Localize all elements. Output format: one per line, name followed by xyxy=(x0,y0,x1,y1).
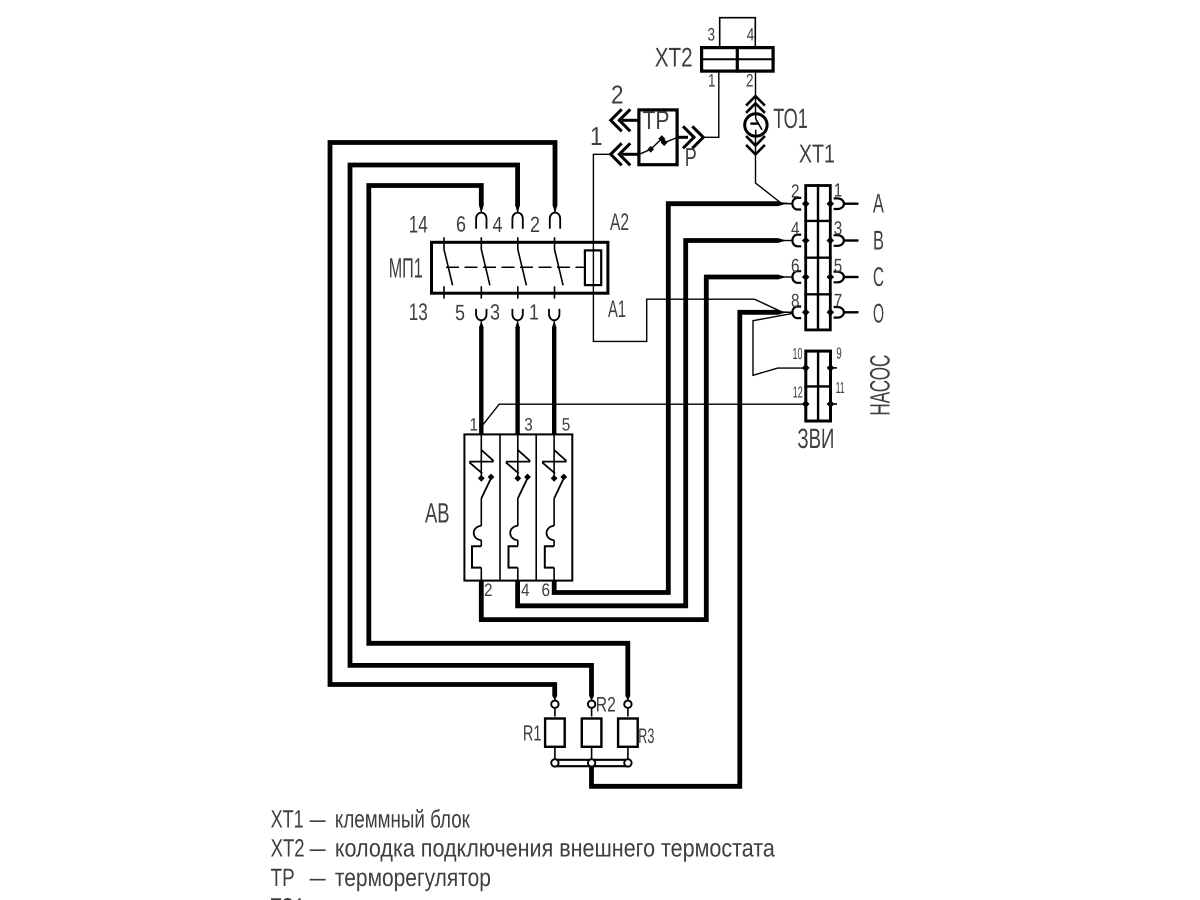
resistor R2 body xyxy=(582,719,602,747)
wire taper at XT1 pin2 xyxy=(778,201,787,206)
thermoregulator TP body xyxy=(639,110,677,165)
svg-text:–: – xyxy=(310,835,326,863)
svg-text:1: 1 xyxy=(470,415,479,435)
wire ЗВИ pin9 stub xyxy=(831,367,837,369)
МП1 linkage dashed line xyxy=(446,266,584,268)
svg-text:3: 3 xyxy=(490,300,500,325)
svg-text:А1: А1 xyxy=(608,296,626,323)
svg-text:8: 8 xyxy=(791,291,800,312)
svg-text:2: 2 xyxy=(530,212,540,237)
wire TP pin1 to МП1 coil A2 and A1 to XT1 pin8 xyxy=(593,154,791,341)
wire taper at R1 top circle xyxy=(552,696,557,702)
МП1 pin6 socket top xyxy=(476,213,486,229)
wire МП1 pin3 to АВ pin3 xyxy=(515,327,519,434)
МП1 pin4 socket top xyxy=(512,213,522,229)
svg-text:ТО1: ТО1 xyxy=(271,893,305,900)
МП1 pin1 socket bottom xyxy=(549,309,559,320)
XT1 pin labels xyxy=(791,181,842,313)
svg-text:В: В xyxy=(873,225,884,255)
wire taper at МП1 pin3 socket xyxy=(515,321,520,329)
ЗВИ pin9 dot xyxy=(827,364,835,372)
svg-text:6: 6 xyxy=(791,256,800,277)
connector XT2 body xyxy=(700,46,775,73)
svg-text:R2: R2 xyxy=(596,694,616,717)
wire МП1 pin4 socket joint xyxy=(517,205,519,212)
TO1 socket arrows bottom xyxy=(746,136,765,154)
XT1 pin3 plug xyxy=(827,235,844,246)
svg-text:14: 14 xyxy=(409,211,428,238)
svg-text:2: 2 xyxy=(484,580,493,600)
svg-text:1: 1 xyxy=(834,181,843,202)
terminal block XT1 body xyxy=(804,184,831,330)
wire taper at МП1 pin6 socket xyxy=(479,205,484,214)
svg-text:2: 2 xyxy=(791,181,800,202)
wire XT1 pin8 to ЗВИ pin10 xyxy=(753,314,805,376)
svg-text:ТР: ТР xyxy=(271,864,295,892)
XT2 pin labels xyxy=(708,24,755,90)
svg-text:ТР: ТР xyxy=(643,105,670,135)
wire taper at R3 top circle xyxy=(625,696,630,702)
wire XT1 pin6 thin joint xyxy=(780,276,792,278)
svg-text:–: – xyxy=(310,805,326,833)
svg-text:3: 3 xyxy=(834,218,843,239)
wire net B: АВ pin4 to XT1 pin4 xyxy=(518,241,779,606)
R2 bottom terminal circle xyxy=(588,759,595,766)
wire XT1 pin4 thin joint xyxy=(780,240,792,242)
wire ЗВИ pin11 stub xyxy=(831,403,837,405)
legend line XT2 xyxy=(271,835,775,863)
wire R2 bottom lead xyxy=(591,748,593,760)
wire XT1 pin5 stub to C xyxy=(844,276,859,278)
wire XT1 pin3 stub to B xyxy=(844,239,859,241)
resistor R1 body xyxy=(545,719,565,747)
svg-text:ХТ2: ХТ2 xyxy=(271,835,305,863)
МП1 main contact pole 4-3 xyxy=(518,237,527,298)
svg-text:терморегулятор: терморегулятор xyxy=(335,864,491,892)
svg-text:9: 9 xyxy=(836,345,842,362)
svg-text:11: 11 xyxy=(836,380,845,397)
svg-text:5: 5 xyxy=(455,300,465,325)
wire XT1 pin2 thin joint xyxy=(780,203,792,205)
R3 bottom terminal circle xyxy=(624,759,631,766)
svg-text:А2: А2 xyxy=(610,209,629,236)
svg-text:5: 5 xyxy=(562,415,571,435)
wire XT1 pin7 stub to O xyxy=(844,311,859,313)
XT1 pin4 socket xyxy=(792,235,809,247)
wire МП1 pin1 socket joint xyxy=(553,320,555,326)
wire taper at МП1 pin4 socket xyxy=(515,205,520,214)
МП1 coil xyxy=(585,250,601,285)
wire XT1 pin1 stub to A xyxy=(844,202,859,204)
ЗВИ pin11 dot xyxy=(827,400,835,408)
svg-text:R1: R1 xyxy=(523,721,542,746)
wire taper at МП1 pin2 socket xyxy=(553,205,558,214)
wire МП1 pin5 socket joint xyxy=(480,320,482,326)
svg-text:2: 2 xyxy=(746,71,754,91)
svg-text:6: 6 xyxy=(542,580,551,600)
wire taper at R2 top circle xyxy=(589,696,594,702)
wire АВ pin1 to ЗВИ pin12 xyxy=(481,404,804,427)
svg-text:3: 3 xyxy=(524,415,533,435)
svg-text:–: – xyxy=(310,893,326,900)
svg-text:2: 2 xyxy=(611,80,624,110)
ЗВИ pin12 dot xyxy=(802,400,810,408)
TP plug P arrows xyxy=(678,126,704,148)
wire XT1 pin8 thin joint xyxy=(780,311,792,313)
legend line XT1 xyxy=(271,805,471,833)
svg-text:5: 5 xyxy=(834,256,843,277)
svg-text:С: С xyxy=(873,262,884,292)
МП1 pin2 socket top xyxy=(550,213,560,229)
МП1 aux contact 13-14 xyxy=(444,237,453,298)
wire net A: АВ pin6 to XT1 pin2 xyxy=(554,204,778,593)
МП1 main contact pole 2-1 xyxy=(555,237,564,298)
wire XT2 pin2 to TO1 top xyxy=(755,72,757,114)
R2 top terminal circle xyxy=(588,701,595,708)
svg-text:ХТ1: ХТ1 xyxy=(271,805,304,833)
R1 bottom terminal circle xyxy=(551,759,558,766)
АВ pole 5-6 xyxy=(542,433,567,581)
svg-text:1: 1 xyxy=(529,300,539,325)
МП1 pin3 socket bottom xyxy=(512,309,522,320)
TP socket pin1 arrows xyxy=(611,143,638,165)
contactor МП1 body xyxy=(432,242,608,293)
svg-text:О: О xyxy=(873,298,884,328)
wire TO1 bottom to XT1 pin2 xyxy=(756,136,792,204)
wire R1 bottom lead xyxy=(554,748,556,760)
svg-text:ХТ2: ХТ2 xyxy=(655,42,693,72)
МП1 pin labels xyxy=(409,211,540,325)
svg-text:R3: R3 xyxy=(638,725,654,748)
thermal cutout TO1 xyxy=(745,114,767,136)
wire МП1 pin1 to АВ pin5 xyxy=(552,327,556,434)
ЗВИ pin labels xyxy=(793,345,845,401)
ЗВИ pin10 dot xyxy=(802,364,810,372)
svg-text:АВ: АВ xyxy=(425,498,450,529)
svg-text:1: 1 xyxy=(590,121,603,151)
XT1 pin2 socket xyxy=(792,198,809,210)
resistor bus bar xyxy=(552,760,631,766)
connector ЗВИ body xyxy=(804,350,832,423)
wire R3 bottom lead xyxy=(627,748,629,760)
XT1 pin1 plug xyxy=(827,198,844,209)
TO1 plug arrows top xyxy=(746,96,765,113)
svg-text:НАСОС: НАСОС xyxy=(864,355,895,416)
svg-text:3: 3 xyxy=(708,24,716,44)
wire taper at XT1 pin6 xyxy=(778,275,787,280)
svg-text:13: 13 xyxy=(409,299,428,326)
svg-text:ХТ1: ХТ1 xyxy=(799,139,835,169)
XT1 pin8 socket xyxy=(792,307,809,319)
svg-text:колодка подключения внешнего т: колодка подключения внешнего термостата xyxy=(335,835,775,863)
wire МП1 pin6 socket joint xyxy=(480,205,482,212)
TP socket pin2 arrows xyxy=(611,109,638,131)
svg-text:7: 7 xyxy=(834,291,843,312)
R3 top terminal circle xyxy=(624,701,631,708)
resistor R3 body xyxy=(618,719,638,747)
МП1 pin5 socket bottom xyxy=(476,309,486,320)
svg-text:МП1: МП1 xyxy=(389,252,423,283)
АВ pin labels xyxy=(470,415,571,601)
wire МП1 pin5 to АВ pin1 xyxy=(479,327,483,434)
svg-text:4: 4 xyxy=(791,219,800,240)
wire МП1 pin2 socket joint xyxy=(554,205,556,212)
wire R3 top lead xyxy=(627,708,629,717)
legend line TP xyxy=(271,864,491,892)
svg-text:ЗВИ: ЗВИ xyxy=(797,423,834,454)
wire taper at XT1 pin4 xyxy=(778,238,787,243)
svg-text:термовыключатель: термовыключатель xyxy=(335,893,520,900)
R1 top terminal circle xyxy=(551,701,558,708)
svg-text:клеммный блок: клеммный блок xyxy=(335,805,471,833)
wire МП1 pin3 socket joint xyxy=(517,320,519,326)
wire XT2 bridge pins 3-4 xyxy=(720,18,756,46)
wire taper at XT1 pin8 xyxy=(778,310,787,315)
svg-text:10: 10 xyxy=(793,346,803,363)
svg-text:А: А xyxy=(873,189,884,219)
svg-text:6: 6 xyxy=(456,212,466,237)
wire R2 top lead xyxy=(591,708,593,717)
svg-text:Р: Р xyxy=(685,142,697,172)
wire net C: АВ pin2 to XT1 pin6 xyxy=(481,277,778,620)
wire R1 top lead xyxy=(554,708,556,717)
wire taper at МП1 pin1 socket xyxy=(552,321,557,329)
МП1 main contact pole 6-5 xyxy=(481,237,490,298)
svg-text:1: 1 xyxy=(708,71,716,91)
TP internal contact xyxy=(640,135,678,154)
wire XT2 pin1 to TP plug P xyxy=(703,72,718,137)
circuit breaker АВ body xyxy=(464,433,572,581)
svg-text:4: 4 xyxy=(521,580,530,600)
svg-text:ТО1: ТО1 xyxy=(773,103,808,134)
АВ pole 3-4 xyxy=(506,433,531,581)
svg-text:12: 12 xyxy=(793,384,803,401)
svg-text:4: 4 xyxy=(493,212,503,237)
XT1 pin5 plug xyxy=(827,272,844,283)
svg-text:–: – xyxy=(310,864,326,892)
legend line TO1 xyxy=(271,893,520,900)
XT1 pin7 plug xyxy=(827,307,844,318)
XT1 pin6 socket xyxy=(792,271,809,283)
АВ pole 1-2 xyxy=(469,433,494,581)
wire net O: R2 bottom to XT1 pin8 xyxy=(592,312,779,786)
wire phase L2 loop: МП1 pin4 feed to R2 xyxy=(350,165,592,697)
wire phase L1 loop: МП1 pin2 feed to R1 xyxy=(330,143,555,697)
wire phase L3 loop: МП1 pin6 feed to R3 xyxy=(369,186,628,697)
wire taper at МП1 pin5 socket xyxy=(479,321,484,329)
svg-text:4: 4 xyxy=(747,24,755,44)
